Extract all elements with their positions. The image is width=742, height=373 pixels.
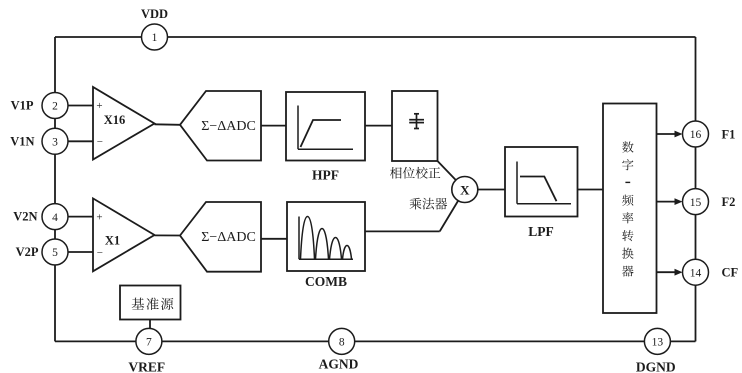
wire: VDD top rail right segment (168, 36, 696, 38)
svg-text:14: 14 (690, 267, 702, 279)
svg-text:X16: X16 (104, 113, 126, 127)
wire: phase corrector to multiplier (diagonal) (438, 161, 456, 180)
wire: HPF to phase corrector (365, 125, 392, 127)
svg-text:F1: F1 (722, 127, 736, 141)
wire: right rail VDD to pin16 (695, 37, 697, 121)
svg-text:Σ−ΔADC: Σ−ΔADC (201, 119, 256, 134)
wire: bottom rail left corner to pin7 (55, 340, 136, 342)
svg-text:15: 15 (690, 197, 702, 209)
svg-text:X: X (460, 182, 470, 197)
label &#x57FA;&#x51C6;&#x6E90; (reference source) (132, 298, 174, 310)
wire: pin5 to X1 - input (68, 251, 93, 253)
wire: VDD top rail left segment (55, 36, 142, 38)
pin 8 (AGND) (329, 328, 355, 354)
wire: LPF to digital converter (578, 189, 604, 191)
label LPF (528, 224, 554, 239)
svg-text:−: − (97, 136, 103, 148)
label V1P (11, 99, 34, 113)
svg-text:COMB: COMB (305, 274, 347, 289)
wire: right rail pin16 to pin15 (695, 147, 697, 189)
label F1 (722, 127, 736, 141)
svg-text:V2P: V2P (16, 245, 39, 259)
label COMB (305, 274, 347, 289)
wire: COMB to multiplier (diagonal) (440, 201, 459, 232)
svg-text:5: 5 (52, 247, 58, 259)
label &#x6570;&#x5B57;-&#x9891;&#x7387;&#x8F6C;&#x6362;&#x5668; (digital-frequency converter, vertical) (622, 141, 634, 276)
svg-text:LPF: LPF (528, 224, 554, 239)
svg-text:4: 4 (52, 212, 58, 224)
label V1N (10, 134, 34, 148)
svg-text:DGND: DGND (636, 360, 676, 373)
wire: converter output to pin15 (arrow) (657, 198, 683, 205)
svg-text:VREF: VREF (128, 360, 165, 373)
wire: reference source to pin7 (149, 320, 151, 329)
svg-text:X1: X1 (105, 233, 120, 247)
label &#x4E58;&#x6CD5;&#x5668; (multiplier) (410, 198, 448, 210)
wire: pin2 to X16 + input (68, 105, 93, 107)
wire: X1 output to ADC2 (155, 234, 181, 236)
svg-text:V1N: V1N (10, 134, 34, 148)
svg-text:8: 8 (339, 337, 345, 349)
wire: left rail pin5 to bottom corner (54, 265, 56, 341)
label CF (722, 266, 739, 280)
svg-text:13: 13 (652, 337, 664, 349)
wire: bottom rail pin8 to pin13 (355, 340, 645, 342)
block phase correction (symbol) (392, 91, 438, 161)
svg-text:1: 1 (152, 32, 158, 44)
svg-text:3: 3 (52, 137, 58, 149)
pin 5 (V2P) (42, 239, 68, 265)
svg-text:−: − (97, 247, 103, 259)
pin 14 (CF) (683, 259, 709, 285)
wire: pin3 to X16 - input (68, 140, 93, 142)
label F2 (722, 195, 736, 209)
wire: left rail top corner to pin2 (54, 37, 56, 93)
wire: ADC1 to HPF (261, 125, 286, 127)
ADC1 sigma-delta (&#x3A3;-&#x394;ADC) (180, 91, 261, 161)
svg-text:AGND: AGND (319, 357, 359, 372)
wire: right rail pin14 to bottom corner (695, 285, 697, 341)
svg-text:CF: CF (722, 266, 739, 280)
pin 1 (VDD) (142, 24, 168, 50)
block HPF (high-pass filter) (286, 92, 365, 161)
svg-text:2: 2 (52, 101, 58, 113)
svg-text:Σ−ΔADC: Σ−ΔADC (201, 230, 256, 245)
label VREF (128, 360, 165, 373)
svg-text:VDD: VDD (141, 7, 168, 21)
label &#x76F8;&#x4F4D;&#x6821;&#x6B63; (phase correction) (390, 167, 440, 179)
svg-text:F2: F2 (722, 195, 736, 209)
op-amp/PGA X16 (93, 87, 155, 160)
svg-text:HPF: HPF (312, 168, 339, 183)
wire: bottom rail corner to pin13 (670, 340, 695, 342)
wire: left rail pin2 to pin3 (54, 119, 56, 129)
wire: left rail pin4 to pin5 (54, 230, 56, 239)
wire: converter output to pin16 (arrow) (657, 131, 683, 138)
pin 3 (V1N) (42, 128, 68, 154)
block reference source (120, 286, 181, 320)
label AGND (319, 357, 359, 372)
ADC2 sigma-delta (&#x3A3;-&#x394;ADC) (180, 202, 261, 272)
wire: right rail pin15 to pin14 (695, 215, 697, 260)
block COMB (comb filter) (287, 202, 365, 271)
wire: left rail pin3 to pin4 (54, 154, 56, 203)
svg-text:16: 16 (690, 129, 702, 141)
op-amp/PGA X1 (93, 198, 155, 271)
block LPF (low-pass filter) (505, 147, 578, 217)
pin 16 (F1) (683, 121, 709, 147)
pin 13 (DGND) (644, 328, 670, 354)
multiplier X (452, 177, 478, 203)
wire: X16 output to ADC1 (155, 123, 181, 126)
wire: converter output to pin14 (arrow) (657, 269, 683, 276)
svg-text:V1P: V1P (11, 99, 34, 113)
svg-text:+: + (96, 100, 102, 112)
label VDD (141, 7, 168, 21)
wire: pin4 to X1 + input (68, 216, 93, 218)
label V2P (16, 245, 39, 259)
label HPF (312, 168, 339, 183)
pin 4 (V2N) (42, 204, 68, 230)
wire: ADC2 to COMB (261, 238, 287, 240)
label V2N (13, 210, 37, 224)
label DGND (636, 360, 676, 373)
wire: bottom rail pin7 to pin8 (162, 340, 329, 342)
wire: multiplier to LPF (478, 189, 505, 191)
pin 7 (VREF) (136, 328, 162, 354)
wire: COMB output horizontal (365, 230, 440, 232)
pin 15 (F2) (683, 189, 709, 215)
block digital-frequency converter (603, 104, 657, 314)
svg-text:V2N: V2N (13, 210, 37, 224)
pin 2 (V1P) (42, 93, 68, 119)
svg-text:+: + (96, 211, 102, 223)
svg-text:7: 7 (146, 337, 152, 349)
